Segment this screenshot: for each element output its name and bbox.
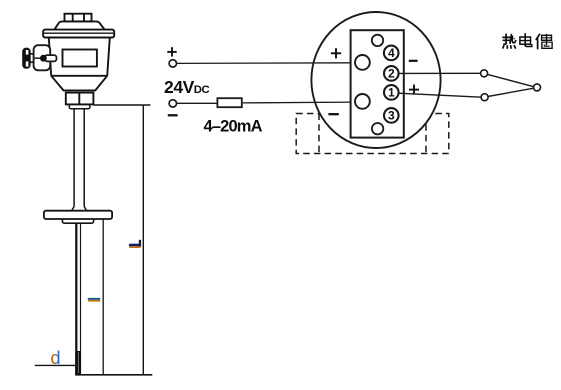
svg-text:DC: DC: [194, 84, 210, 96]
svg-text:1: 1: [388, 86, 395, 100]
svg-text:4: 4: [388, 46, 395, 60]
svg-text:4–20mA: 4–20mA: [204, 117, 263, 135]
svg-text:24V: 24V: [164, 77, 195, 97]
svg-text:3: 3: [388, 109, 395, 123]
svg-text:2: 2: [388, 67, 395, 81]
